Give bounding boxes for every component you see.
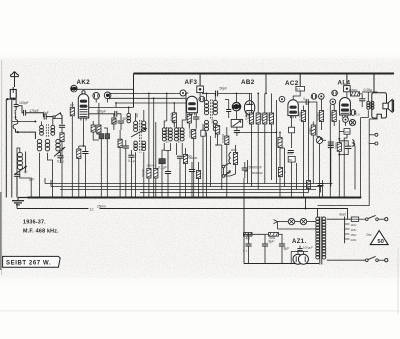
terminal h1 [93,93,100,100]
wire C33 to bus [191,172,193,198]
wire v264 top [264,93,266,113]
heater line [278,221,289,223]
junction bus [143,197,145,199]
wire R21 to bus [279,148,281,198]
junction bus [264,197,266,199]
wire cathode tee [79,145,86,147]
wire interstage line 1 [110,92,187,94]
resistor R11 [225,136,229,145]
wire [78,146,80,149]
resistor R30 [278,168,282,177]
wire C1 to C2 [18,106,24,113]
wire routing line 4 [140,192,309,194]
mains terminal 1 [378,218,388,221]
wire R18 top [321,99,323,110]
wire L2b top [53,119,62,126]
wire T1a top [135,113,137,121]
wire R28 top [185,148,187,155]
wire C31 top [281,234,283,244]
terminal k1 [311,94,317,100]
wire v210 [210,136,212,187]
wire [354,143,357,147]
terminal k2 [319,94,325,100]
wire R7 down [173,122,175,127]
resistor R5 [112,118,116,124]
wire C30 top [264,234,266,244]
wire to switch S2b [225,174,236,176]
capacitor C14 [193,117,199,119]
wire R10 down [215,134,217,145]
mains switch pole 1 [366,215,379,220]
wire box to tube [346,92,348,97]
wire R5 down [113,124,115,130]
resistor R14 [256,113,260,124]
wire C10 to bus [106,139,108,198]
wire C10 top [104,128,107,134]
mains frequency triangle 50Hz [370,231,388,245]
wire R6 to bus [119,148,121,198]
wire v247 [247,160,249,184]
wire routing line 1 [45,183,333,185]
wire v322 [322,180,324,198]
dial lamp 2 [300,218,306,224]
IF transformer T3 winding b [213,100,217,114]
wire top cap line [77,88,133,90]
wire C20 to bus [243,178,245,198]
core L2 [46,124,48,137]
wire R12 top [235,145,237,153]
capacitor C6 [57,156,63,158]
junction [185,93,187,95]
wire stub l2 [50,180,52,187]
junction [166,93,168,95]
wire AZ1 lead [297,251,299,254]
wire R1 to bus [71,116,73,198]
resistor R1 [70,107,74,116]
wire R21 top [279,132,281,137]
band switch S1a [53,112,61,118]
wire [188,113,190,115]
resistor R16 [269,113,273,124]
resistor R24 [337,143,341,152]
wire AC2 k down [291,116,293,128]
wire v148 to bus [148,122,150,198]
IF transformer T1 winding a [134,121,138,132]
wire disc top [236,93,238,102]
resistor R19 [332,111,336,122]
junction bus right [360,197,362,199]
wire T2c down [175,143,177,155]
wire AZ1 lead2 [302,251,304,254]
capacitor C23 cluster [288,151,294,153]
oscillator coil L3a [37,139,41,151]
wire AZ1 top rail [291,250,308,252]
junction bus [84,197,86,199]
wire C35 top [299,246,301,249]
resistor R4 [91,125,95,132]
wire node to osc coil [18,132,36,139]
junction [109,97,111,99]
wire stub v2 [115,103,117,107]
wire C29 top [248,234,250,244]
dial lamp 1 [288,218,294,224]
junction bus [243,197,245,199]
junction bus [161,197,163,199]
wire R11 top [226,127,228,136]
capacitor C12 [123,146,129,148]
pickup terminal 2 [369,142,378,145]
junction bus [193,197,195,199]
wire [349,88,351,90]
curly brace [352,140,354,147]
junction antenna node [13,98,15,100]
junction bus [130,197,132,199]
terminal AL4 c [350,110,356,116]
wire B+ feed down [243,198,245,264]
switch S2a [222,163,230,168]
wire heater left [277,222,279,229]
capacitor C4 [59,125,65,127]
capacitor C31 8uF [279,244,285,246]
wire C8 right [117,114,121,120]
wire C12 to bus [125,148,127,198]
voltage selector bar [344,217,346,244]
wire C3 to band switch [46,116,53,118]
resistor R2 [77,149,81,159]
wire v258 top [257,96,259,113]
wire to transformer [317,209,319,218]
switch S2b [222,172,230,177]
wire [14,98,16,100]
wire [345,122,347,126]
resistor R22 [306,181,310,189]
junction RC top [338,138,340,140]
wire L2a top [41,122,43,126]
terminal AL4 e [349,120,355,126]
capacitor C33 [189,170,195,172]
junction bus right [329,197,331,199]
junction S [15,116,17,118]
wire L1 bottom to bus [20,170,31,197]
speaker [383,100,394,113]
terminal AL4 a [332,90,338,96]
ground [12,198,24,205]
wire R5 [113,114,115,118]
wire box to tube [199,93,201,96]
wire h2 down [107,98,109,102]
wire switch to C4 [60,114,62,125]
antenna lead-in socket [10,87,16,98]
resistor R12 [233,153,237,165]
wire v308 long [308,102,310,180]
wire riser HT to AK2 plate [133,74,135,108]
wire R2 to bus [78,159,80,198]
junction bus [71,197,73,199]
wire stub v1 [109,93,111,98]
paper cap block C10 [105,134,110,139]
tube AB2 duodiode [244,101,254,118]
junction bus [153,197,155,199]
wire v155 [155,122,157,169]
wire v276 [276,100,278,184]
wire C13 to bus [130,157,132,197]
tube AF3 [187,96,198,115]
wire T3d down [214,133,216,139]
wire v264 down [264,124,266,184]
wire to S coil [15,115,17,120]
plate cap box AF3 [197,86,204,93]
wire v360 [360,118,362,198]
wire interstage line 2 [110,97,187,99]
wire box to rail [339,130,344,132]
tube AK2 top cap [82,91,85,94]
wire v166 [166,93,168,121]
wire C12 top [125,140,127,146]
wire T2a top [164,121,167,128]
wire C16 to bus [179,158,181,197]
wire R7 top [173,103,175,113]
wire C17 to bus [161,164,163,198]
IF T2 core 2 [179,127,180,143]
wire OTa top [367,92,369,102]
wire AC2 plate [298,101,306,103]
output transformer OT winding a [367,101,370,109]
wire speaker return [369,118,377,120]
wire v271 top [271,93,273,113]
wire riser AC2 [299,74,301,87]
wire AF signal line [237,131,277,133]
junction bus [276,197,278,199]
resistor R15 [263,113,267,124]
wire C7 to bus [84,154,86,198]
capacitor C20 50000pF [242,168,248,170]
wire ground link [18,197,28,199]
wire link to node [16,129,18,132]
wire vert v148 [148,93,150,122]
IF transformer T1 winding b [142,121,146,132]
wire psu drop [305,198,307,209]
wire v251 top [251,93,253,113]
wire L3a to bus [39,153,41,198]
title box SEIBT 267 W [3,256,61,267]
trimmer T1 [131,128,147,137]
wire T2b down [164,143,170,151]
terminal AL4 b [330,99,336,105]
wire disc down [236,111,238,120]
wire left rail 2 [11,98,13,197]
volume pot brace [229,152,231,164]
wire grid2 line [89,113,115,115]
wire to bus [291,162,293,198]
wire R17 to bus [303,122,305,198]
resistor R26 [147,169,151,179]
junction [308,101,310,103]
potentiometer P1 volume [231,120,242,128]
junction osc node [17,131,19,133]
antenna coil L1 [18,152,23,169]
wire C5 to bus [16,176,18,197]
wire v330 [329,105,331,198]
junction bus [135,197,137,199]
wire R17 top [303,106,305,111]
junction bus [226,197,228,199]
wire pickup feed [318,119,370,206]
resistor R13 0.3M [249,113,253,124]
power transformer core [320,217,322,265]
wire AK2 plate [89,106,134,108]
wire [166,92,168,94]
wire C11 down [120,123,122,130]
capacitor C13 0.1uF [128,155,134,157]
terminal AL4 d [343,117,349,123]
wire T1b top [143,110,145,121]
wire C26 down [361,101,363,107]
wire R20 top [312,122,314,126]
electrolytic block C17 [159,159,165,164]
junction bus [202,197,204,199]
pot P2 tone [316,137,322,143]
junction rail node [6,98,8,100]
junction bus [291,197,293,199]
wire rail tap [12,121,36,123]
wire C33 top [191,162,193,170]
resistor R9 [192,130,196,139]
wire C4 down [61,127,63,133]
junction bus [148,197,150,199]
switch hook [15,110,17,114]
grid box AC2 [296,86,305,91]
terminal AC2 g [279,96,285,102]
resistor R27 [154,169,158,179]
capacitor C1 100pF [14,105,19,107]
wire earth bus 2 [17,208,89,210]
wire C20 top [244,162,246,168]
junction bus [78,197,80,199]
wire v284 [284,148,286,187]
wire left rail 1 [5,99,7,197]
capacitor C2 170pF [24,110,26,116]
grid box AL4 [344,86,351,92]
wire C1 down [15,107,17,110]
wire OT top [362,91,378,93]
coil core L1 [25,152,27,173]
wire fuse to switch [359,218,366,220]
wire pot to C19 [236,127,238,130]
capacitor C3 4pF [44,114,46,120]
box component [289,127,295,133]
wire v271 down [271,124,273,180]
grid coil L4 [127,113,131,123]
IF transformer T2 winding b [169,128,173,141]
IF transformer T2 winding a [162,128,166,141]
wire interstage line 3 [116,102,186,104]
wire AZ1 left lead [290,251,292,263]
wire R20 down [312,135,314,140]
scan noise texture [0,58,400,278]
wire box150 to bus [344,134,347,197]
resistor R10 [216,126,220,135]
wire L3c to C6 [58,153,61,156]
wire RC loop top [339,141,348,146]
wire C22 down [330,148,332,155]
wire [280,147,285,149]
resistor R29 [196,171,200,179]
wire T3a top [206,93,208,100]
capacitor C32 [165,172,171,174]
wire box to AC2 [293,91,300,100]
resistor R6 [118,139,122,147]
wire C21 right to pot [308,102,319,137]
capacitor C7 [82,152,88,154]
wire lead-in bottom [7,98,14,100]
wire routing line 3 [60,189,316,191]
wire vert v153 [153,98,155,122]
box cap C15 [201,130,205,136]
mains terminal 2 [378,259,388,262]
wire C2 to C3 [26,113,45,117]
wire [257,93,259,96]
wiper arrow [226,170,230,173]
resistor R17 [301,111,305,122]
wire R1 top [71,102,73,107]
wire riser AB2 [265,74,267,94]
scan page right edge [397,248,400,314]
wire C20 down [244,170,246,178]
heater tag [274,220,278,224]
IF transformer T2 winding d [180,128,184,141]
wire L3b down [48,153,53,198]
box cap C24 [288,156,295,162]
wire node to C1 [15,99,17,105]
trimmer on L3 [54,147,65,157]
wire C14 down [195,119,197,129]
capacitor C21 [306,99,308,105]
wire T2d down [181,143,183,155]
wire diode line [218,92,252,94]
IF transformer T1 winding c [134,141,138,151]
IF T1 core [139,120,141,153]
wire C9 to bus [100,139,102,198]
capacitor C19 [234,131,240,133]
pickup terminal 1 [369,133,378,136]
IF T2 core 1 [167,127,168,143]
wire C15 top [202,124,204,130]
wire [236,133,238,136]
wire R18 down [321,122,323,131]
terminal AF3 g [180,90,186,96]
wire bus2 left end [16,204,18,209]
wire R27 to bus [155,178,157,198]
wire R19 top [333,105,335,111]
wire v221 [221,145,223,190]
wire v313 ext [312,140,314,183]
junction bus [172,197,174,199]
capacitor C22 stack [328,142,334,144]
oscillator coil L2a [40,125,44,135]
resistor R3 [97,125,101,134]
wire C6 down [60,158,62,163]
power transformer secondary [322,217,326,259]
wire S2 link [223,168,225,175]
terminal h2 [104,92,111,99]
tube AL4 [340,98,351,118]
resistor R28 [183,155,187,164]
wire riser OT [373,74,375,93]
wire [225,99,229,101]
resistor R31 [244,233,253,237]
trimmer on L1 [15,166,27,174]
wire C32 to bus [167,174,169,198]
